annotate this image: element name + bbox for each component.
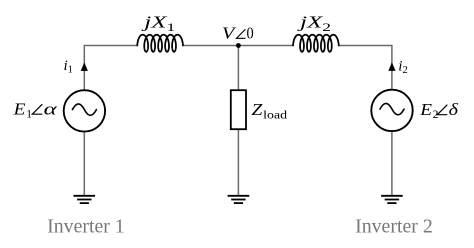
AC source U1 sine symbol <box>72 104 96 115</box>
AC source U1 circle E1 <box>64 90 105 131</box>
current arrow i1 on left branch <box>81 62 88 71</box>
svg-text:E: E <box>419 100 432 119</box>
svg-text:i1: i1 <box>64 58 73 76</box>
svg-text:E: E <box>13 99 26 118</box>
label angle symbol of E1 <box>32 104 42 114</box>
AC source U2 circle E2 <box>371 90 412 131</box>
ground symbol right <box>381 196 403 203</box>
wire top-left horizontal from left branch to inductor L1 <box>84 45 137 47</box>
label angle symbol of E2 <box>437 105 447 115</box>
wire middle branch vertical from node V to Zload box <box>237 46 239 91</box>
svg-text:0: 0 <box>247 24 254 43</box>
svg-text:V: V <box>222 24 237 43</box>
label angle symbol of node V <box>237 29 246 38</box>
ground symbol middle <box>228 196 250 203</box>
svg-text:jX2: jX2 <box>297 13 331 34</box>
node V junction dot <box>236 43 241 48</box>
wire left branch vertical from source E1 to ground <box>83 132 85 195</box>
current arrow i2 on right branch <box>388 62 395 71</box>
svg-text:i2: i2 <box>398 59 407 77</box>
inductor L1 coil jX1 <box>137 35 183 52</box>
wire right branch vertical from source E2 to ground <box>391 132 393 196</box>
svg-text:Inverter 1: Inverter 1 <box>47 217 125 238</box>
AC source U2 sine symbol <box>380 103 404 114</box>
wire middle branch vertical from Zload box to ground <box>237 129 239 195</box>
impedance box Zload <box>231 90 246 129</box>
svg-text:α: α <box>44 99 57 118</box>
ground symbol left <box>74 196 96 203</box>
inductor L2 coil jX2 <box>293 35 339 52</box>
svg-text:δ: δ <box>449 100 459 119</box>
wire right branch vertical from top wire to source E2 <box>391 45 393 89</box>
svg-text:Inverter 2: Inverter 2 <box>355 217 433 238</box>
svg-text:load: load <box>263 109 287 121</box>
wire top-middle horizontal from L1 through node V to inductor L2 <box>183 45 293 47</box>
wire top-right horizontal from L2 to right branch <box>339 45 392 47</box>
svg-text:Z: Z <box>252 100 264 119</box>
svg-text:jX1: jX1 <box>141 13 175 34</box>
wire left branch vertical from top wire to source E1 <box>83 45 85 90</box>
